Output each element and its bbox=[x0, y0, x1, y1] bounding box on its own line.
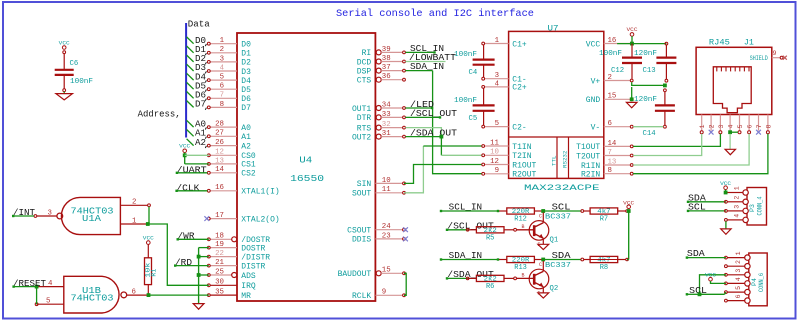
svg-text:14: 14 bbox=[215, 166, 224, 174]
svg-text:3: 3 bbox=[48, 209, 52, 217]
ground symbol P3 bbox=[721, 229, 731, 234]
svg-text:D5: D5 bbox=[241, 86, 251, 95]
wire Q1 collector to SCL node bbox=[542, 213, 544, 223]
svg-text:T1OUT: T1OUT bbox=[576, 143, 600, 152]
node /LOWBATT stub bbox=[405, 53, 456, 63]
svg-text:17: 17 bbox=[215, 212, 224, 220]
svg-text:5: 5 bbox=[735, 286, 742, 290]
wire T1OUT to J1 pin3 bbox=[633, 134, 720, 147]
svg-text:1: 1 bbox=[132, 217, 137, 225]
node /RESET bbox=[13, 279, 47, 289]
J1 pin 7 bbox=[756, 115, 763, 135]
svg-text:7: 7 bbox=[220, 92, 224, 100]
svg-text:/CLK: /CLK bbox=[176, 183, 200, 193]
svg-text:V+: V+ bbox=[591, 77, 601, 86]
svg-text:2: 2 bbox=[608, 74, 612, 82]
VCC supply at R1 bbox=[143, 234, 155, 244]
svg-text:24: 24 bbox=[382, 223, 391, 231]
svg-text:Serial console and I2C interfa: Serial console and I2C interface bbox=[336, 8, 534, 20]
P3 pin 4 bbox=[727, 214, 748, 223]
wire SIN to R1OUT bbox=[404, 165, 482, 184]
wire end dots bbox=[12, 51, 689, 295]
node /CLK bbox=[176, 183, 207, 193]
P3 pin 2 bbox=[727, 196, 748, 205]
svg-text:/DISTR: /DISTR bbox=[241, 253, 270, 262]
svg-text:DCD: DCD bbox=[357, 58, 372, 67]
svg-text:Address,: Address, bbox=[138, 109, 181, 119]
svg-text:P3: P3 bbox=[749, 204, 756, 212]
svg-text:Q1: Q1 bbox=[550, 236, 559, 244]
svg-text:39: 39 bbox=[382, 46, 391, 54]
U4 pin 2 D1 bbox=[207, 46, 251, 58]
U4 pin 22 /DISTR bbox=[207, 250, 270, 262]
J1 pin 5 bbox=[737, 115, 744, 134]
svg-text:2: 2 bbox=[709, 124, 716, 128]
U4 pin 6 D5 bbox=[207, 83, 251, 95]
P4 pin 3 bbox=[725, 269, 751, 278]
U4 pin 7 D6 bbox=[207, 92, 251, 104]
capacitor C5 bbox=[454, 88, 495, 125]
U4 pin 3 D2 bbox=[207, 55, 251, 67]
svg-text:D7: D7 bbox=[241, 104, 251, 113]
resistor R1 10k bbox=[145, 244, 158, 295]
svg-text:V-: V- bbox=[591, 124, 601, 133]
svg-text:30: 30 bbox=[215, 279, 224, 287]
U4 pin 21 DISTR bbox=[207, 259, 265, 271]
U7 pin 12 R1OUT bbox=[482, 158, 537, 170]
U7 pin 14 T1OUT bbox=[576, 140, 633, 152]
svg-text:CONN_4: CONN_4 bbox=[756, 196, 763, 215]
svg-text:3: 3 bbox=[735, 269, 742, 273]
svg-text:D1: D1 bbox=[241, 50, 251, 59]
U4 pin 24 CSOUT bbox=[347, 223, 408, 235]
wire T2OUT to J1 pin1 bbox=[633, 134, 702, 156]
U7 pin 1 C1+ bbox=[482, 37, 527, 49]
svg-text:12: 12 bbox=[490, 158, 499, 166]
VCC supply at P4 pin4 bbox=[705, 271, 726, 283]
U7 pin 3 C1- bbox=[482, 72, 527, 84]
P4 pin 4 bbox=[725, 277, 751, 286]
svg-text:U4: U4 bbox=[299, 156, 312, 166]
svg-text:R2OUT: R2OUT bbox=[512, 171, 536, 180]
U4 pin 31 OUT2 bbox=[352, 130, 405, 142]
svg-text:RI: RI bbox=[362, 49, 372, 58]
node /INT bbox=[13, 208, 36, 218]
node SDA_IN stub bbox=[405, 62, 444, 72]
svg-text:J1: J1 bbox=[744, 39, 754, 48]
VCC supply at P3 pin1 bbox=[720, 180, 732, 194]
svg-text:ADS: ADS bbox=[241, 272, 256, 281]
NAND gate U1B 74HCT03 bbox=[64, 276, 127, 313]
U7 pin 4 C2+ bbox=[482, 80, 527, 92]
svg-text:6: 6 bbox=[608, 120, 612, 128]
node /UART bbox=[177, 165, 208, 175]
svg-text:4: 4 bbox=[220, 64, 225, 72]
U1A pin 3 output bbox=[34, 209, 57, 217]
svg-text:11: 11 bbox=[382, 186, 391, 194]
svg-text:9: 9 bbox=[773, 50, 777, 57]
wire R8 to VCC rail bbox=[627, 259, 629, 261]
node SDA to P3 pin2 bbox=[688, 193, 727, 203]
svg-text:32: 32 bbox=[382, 121, 391, 129]
svg-text:R1OUT: R1OUT bbox=[512, 161, 536, 170]
svg-text:SHIELD: SHIELD bbox=[750, 55, 768, 62]
svg-text:2: 2 bbox=[734, 196, 741, 200]
svg-text:23: 23 bbox=[382, 232, 391, 240]
svg-text:DOSTR: DOSTR bbox=[241, 244, 265, 253]
connector J1 RJ45 body bbox=[696, 39, 772, 115]
U7 pin 10 T2IN bbox=[482, 149, 532, 161]
node D1 bus tap bbox=[187, 45, 207, 55]
svg-text:R1: R1 bbox=[151, 269, 158, 277]
wire VCC to CS0 bbox=[185, 154, 209, 156]
svg-text:D4: D4 bbox=[241, 77, 251, 86]
U4 pin 37 DSP bbox=[357, 64, 406, 76]
svg-text:R6: R6 bbox=[486, 283, 494, 291]
U4 pin 27 A1 bbox=[207, 130, 251, 142]
wire U1B inputs tied bbox=[36, 287, 38, 305]
wire R13 to SDA node bbox=[541, 258, 583, 262]
J1 pin 6 bbox=[747, 115, 754, 134]
svg-text:15: 15 bbox=[382, 267, 391, 275]
ground symbol below J1 bbox=[725, 149, 735, 154]
ground bus for DOSTR/DISTR/ADS bbox=[197, 248, 209, 304]
node D3 bus tap bbox=[187, 63, 207, 73]
U7 pin 9 R2OUT bbox=[482, 167, 537, 179]
svg-text:BC337: BC337 bbox=[545, 262, 571, 270]
svg-text:2: 2 bbox=[220, 46, 224, 54]
svg-text:R7: R7 bbox=[600, 216, 608, 224]
svg-text:4: 4 bbox=[48, 280, 53, 288]
svg-text:1: 1 bbox=[495, 37, 500, 45]
connector P3 CONN_4 body bbox=[747, 188, 767, 226]
svg-text:C12: C12 bbox=[611, 67, 624, 75]
svg-text:13: 13 bbox=[215, 157, 224, 165]
node /LED stub bbox=[405, 100, 434, 110]
svg-text:120nF: 120nF bbox=[634, 50, 657, 58]
U4 pin 13 CS1 bbox=[207, 157, 256, 169]
svg-text:DDIS: DDIS bbox=[352, 236, 371, 245]
svg-text:C4: C4 bbox=[469, 69, 478, 77]
capacitor C14 bbox=[634, 89, 675, 138]
node SDA_IN (lower) bbox=[441, 251, 498, 261]
resistor R7 4k7 bbox=[584, 208, 629, 224]
svg-text:R5: R5 bbox=[486, 234, 494, 242]
svg-text:31: 31 bbox=[382, 130, 391, 138]
U4 pin 4 D3 bbox=[207, 64, 251, 76]
U4 pin 30 IRQ bbox=[207, 279, 256, 291]
svg-text:16: 16 bbox=[215, 184, 224, 192]
svg-text:CS1: CS1 bbox=[241, 161, 256, 170]
svg-text:Q2: Q2 bbox=[550, 285, 559, 293]
U4 pin 34 OUT1 bbox=[352, 101, 405, 113]
svg-text:120nF: 120nF bbox=[634, 96, 657, 104]
resistor R6 2k2 bbox=[466, 275, 516, 291]
svg-text:T2IN: T2IN bbox=[512, 152, 531, 161]
svg-text:100nF: 100nF bbox=[70, 78, 93, 86]
node SCL to P4 pin5 bbox=[687, 286, 726, 296]
svg-text:/UART: /UART bbox=[177, 165, 208, 175]
U4 pin 19 DOSTR bbox=[207, 241, 265, 253]
svg-text:Data: Data bbox=[188, 20, 211, 30]
U4 pin 12 CS0 bbox=[207, 149, 256, 161]
svg-text:12: 12 bbox=[215, 149, 224, 157]
U4 pin 38 DCD bbox=[357, 55, 406, 67]
U4 pin 1 D0 bbox=[207, 37, 251, 49]
node SCL to P3 pin3 bbox=[688, 203, 727, 213]
svg-text:16550: 16550 bbox=[290, 173, 324, 184]
svg-text:18: 18 bbox=[215, 233, 224, 241]
node D2 bus tap bbox=[187, 54, 207, 64]
U7 pin 2 V+ bbox=[591, 74, 634, 86]
U1B pin 6 output bbox=[127, 289, 151, 298]
svg-text:1: 1 bbox=[734, 186, 741, 190]
connector P4 CONN_6 body bbox=[749, 253, 767, 306]
svg-text:SCL: SCL bbox=[552, 203, 571, 213]
VCC supply top right bbox=[627, 26, 639, 43]
capacitor C4 bbox=[454, 45, 495, 77]
wire R2IN to J1 pin8 bbox=[633, 134, 768, 174]
svg-text:U7: U7 bbox=[548, 25, 559, 34]
svg-text:3: 3 bbox=[718, 124, 725, 128]
svg-text:D3: D3 bbox=[241, 68, 251, 77]
svg-text:4: 4 bbox=[734, 214, 741, 218]
svg-text:CTS: CTS bbox=[357, 77, 372, 86]
svg-text:A2: A2 bbox=[241, 142, 251, 151]
U4 pin 23 DDIS bbox=[352, 232, 408, 244]
wire MR net U1B output to U4 pin 35 bbox=[149, 294, 209, 296]
wire SDA_IN to R2OUT bbox=[433, 71, 482, 174]
wire BAUDOUT to RCLK bbox=[404, 273, 406, 295]
U4 pin 15 BAUDOUT bbox=[338, 267, 406, 279]
svg-text:DTR: DTR bbox=[357, 114, 372, 123]
svg-text:3: 3 bbox=[734, 205, 741, 209]
U4 pin 18 /DOSTR bbox=[207, 233, 270, 245]
svg-text:6: 6 bbox=[735, 294, 742, 298]
svg-text:4k7: 4k7 bbox=[597, 208, 611, 215]
resistor R12 220R bbox=[497, 208, 543, 224]
svg-text:3: 3 bbox=[220, 55, 224, 63]
U1B pin 5 input bbox=[35, 298, 64, 306]
node A0 bus tap bbox=[187, 119, 207, 129]
VCC supply symbol at C6 bbox=[59, 39, 71, 53]
svg-text:/RESET: /RESET bbox=[13, 279, 47, 289]
svg-text:RJ45: RJ45 bbox=[709, 39, 730, 48]
svg-text:U1A: U1A bbox=[82, 214, 102, 224]
svg-text:A2: A2 bbox=[195, 138, 206, 148]
wire Q1 emitter to ground bbox=[542, 238, 544, 244]
wire /SDA_OUT to T2IN bbox=[440, 137, 442, 156]
IC U7 MAX232ACPE body bbox=[509, 25, 604, 193]
U4 pin 32 RTS bbox=[357, 121, 406, 133]
U7 pin 5 C2- bbox=[482, 120, 527, 132]
svg-text:2: 2 bbox=[132, 199, 136, 207]
U4 pin 8 D7 bbox=[207, 101, 251, 113]
svg-text:10: 10 bbox=[382, 177, 391, 185]
no-connect on U4 pin 17 bbox=[204, 216, 209, 221]
svg-text:C2-: C2- bbox=[512, 123, 526, 132]
svg-text:27: 27 bbox=[215, 130, 224, 138]
svg-text:A0: A0 bbox=[241, 124, 251, 133]
svg-text:R12: R12 bbox=[514, 216, 527, 224]
svg-text:SIN: SIN bbox=[357, 180, 372, 189]
svg-text:21: 21 bbox=[215, 259, 224, 267]
capacitor C13 bbox=[634, 45, 676, 82]
svg-text:/RD: /RD bbox=[175, 258, 192, 268]
svg-text:SOUT: SOUT bbox=[352, 190, 371, 199]
J1 pin 9 SHIELD bbox=[750, 50, 787, 62]
svg-text:2k2: 2k2 bbox=[484, 276, 498, 283]
svg-text:DISTR: DISTR bbox=[241, 262, 265, 271]
svg-text:R1IN: R1IN bbox=[581, 162, 600, 171]
U4 pin 17 XTAL2(O) bbox=[207, 212, 279, 224]
capacitor C12 bbox=[599, 44, 642, 79]
RJ45 jack symbol bbox=[713, 67, 751, 113]
node SCL_IN stub bbox=[405, 44, 444, 54]
P4 pin 2 bbox=[725, 260, 751, 269]
U4 pin 26 A2 bbox=[207, 139, 251, 151]
svg-text:C2+: C2+ bbox=[512, 84, 527, 93]
P4 pin 5 bbox=[725, 286, 751, 295]
svg-text:MAX232ACPE: MAX232ACPE bbox=[524, 183, 600, 193]
svg-text:C: C bbox=[539, 262, 542, 268]
IC U4 16550 body bbox=[237, 33, 375, 301]
J1 pin 1 bbox=[699, 115, 706, 134]
svg-text:10: 10 bbox=[490, 149, 499, 157]
svg-text:C6: C6 bbox=[70, 60, 79, 68]
svg-text:CS2: CS2 bbox=[241, 170, 256, 179]
P3 pin 3 bbox=[727, 205, 748, 214]
svg-text:VCC: VCC bbox=[586, 40, 601, 49]
svg-text:D6: D6 bbox=[241, 95, 251, 104]
svg-text:220R: 220R bbox=[512, 257, 530, 264]
U4 pin 9 RCLK bbox=[352, 289, 405, 301]
J1 pin 4 bbox=[728, 115, 735, 135]
svg-text:C: C bbox=[539, 213, 542, 219]
svg-text:D2: D2 bbox=[241, 59, 251, 68]
wire R12 to SCL node bbox=[541, 209, 583, 213]
svg-text:2k2: 2k2 bbox=[484, 227, 498, 234]
svg-text:9: 9 bbox=[382, 289, 386, 297]
U4 pin 5 D4 bbox=[207, 74, 251, 86]
svg-text:4: 4 bbox=[495, 80, 500, 88]
svg-text:2: 2 bbox=[735, 260, 742, 264]
svg-text:25: 25 bbox=[215, 268, 224, 276]
svg-text:7: 7 bbox=[608, 149, 612, 157]
U7 pin 16 VCC bbox=[586, 37, 633, 49]
svg-text:BAUDOUT: BAUDOUT bbox=[338, 270, 372, 279]
NAND gate U1A 74HCT03 (mirrored) bbox=[57, 197, 121, 234]
svg-text:35: 35 bbox=[215, 289, 224, 297]
U4 pin 25 ADS bbox=[207, 268, 256, 280]
svg-text:XTAL2(O): XTAL2(O) bbox=[241, 215, 279, 224]
svg-text:OUT2: OUT2 bbox=[352, 133, 371, 142]
U4 pin 39 RI bbox=[362, 46, 406, 58]
svg-text:1: 1 bbox=[699, 124, 706, 128]
svg-text:100nF: 100nF bbox=[454, 51, 477, 59]
svg-text:4k7: 4k7 bbox=[597, 257, 611, 264]
wire V+ to C13/C14 junction bbox=[632, 82, 667, 87]
ground symbol below U1B area bbox=[193, 304, 204, 310]
U1A pin 2 input bbox=[120, 199, 150, 207]
node D7 bus tap bbox=[187, 100, 207, 110]
svg-text:C14: C14 bbox=[643, 130, 657, 138]
resistor R13 220R bbox=[497, 256, 543, 272]
svg-text:RCLK: RCLK bbox=[352, 292, 371, 301]
svg-text:D0: D0 bbox=[241, 41, 251, 50]
wire Q2 collector to SDA node bbox=[542, 261, 544, 271]
U4 pin 36 CTS bbox=[357, 73, 406, 85]
VCC supply for CS0/CS1 bbox=[179, 143, 191, 164]
svg-text:100nF: 100nF bbox=[599, 50, 622, 58]
wire Q2 emitter to ground bbox=[542, 287, 544, 293]
U1B pin 4 input bbox=[35, 280, 64, 289]
node SDA to P4 pin1 bbox=[687, 249, 726, 259]
wire V- to C14 bbox=[633, 126, 663, 128]
wire J1 pin4/pin5 to ground bbox=[730, 132, 738, 149]
wire R1IN to J1 pin6 bbox=[633, 134, 749, 165]
node /SDA_OUT stub bbox=[405, 128, 457, 138]
svg-text:T2OUT: T2OUT bbox=[576, 152, 600, 161]
capacitor C6 bbox=[55, 54, 93, 92]
svg-text:38: 38 bbox=[382, 55, 391, 63]
node /SCL_OUT stub bbox=[405, 109, 457, 119]
wire RTS to T2IN vertical bbox=[405, 128, 441, 137]
svg-text:5: 5 bbox=[220, 74, 224, 82]
U4 pin 11 SOUT bbox=[352, 186, 405, 198]
svg-text:C1+: C1+ bbox=[512, 40, 527, 49]
bus Data/Address bbox=[185, 23, 187, 138]
svg-text:9: 9 bbox=[495, 167, 499, 175]
node /SDA_OUT (lower) bbox=[447, 270, 494, 280]
node D5 bus tap bbox=[187, 81, 207, 91]
svg-text:C13: C13 bbox=[643, 67, 656, 75]
node A2 bus tap bbox=[187, 138, 207, 148]
svg-text:RS232: RS232 bbox=[562, 150, 569, 168]
svg-text:3: 3 bbox=[495, 72, 499, 80]
svg-text:22: 22 bbox=[215, 250, 224, 258]
P4 pin 6 bbox=[725, 294, 751, 303]
svg-text:XTAL1(I): XTAL1(I) bbox=[241, 188, 279, 197]
ground symbol near U7 bbox=[626, 102, 637, 107]
node D0 bus tap bbox=[187, 36, 207, 46]
U4 pin 16 XTAL1(I) bbox=[207, 184, 279, 196]
resistor R8 4k7 bbox=[584, 256, 629, 272]
svg-text:CONN_6: CONN_6 bbox=[758, 273, 765, 292]
wire SOUT to T1IN bbox=[404, 146, 423, 193]
J1 pin 2 bbox=[709, 115, 716, 135]
svg-text:5: 5 bbox=[46, 298, 50, 306]
wire P3 pin4 to ground bbox=[725, 219, 728, 229]
svg-text:16: 16 bbox=[608, 37, 617, 45]
svg-text:4: 4 bbox=[728, 124, 735, 128]
svg-text:6: 6 bbox=[132, 289, 136, 297]
wire U1A output net to IRQ bbox=[148, 224, 209, 285]
node D4 bus tap bbox=[187, 72, 207, 82]
U7 pin 15 GND bbox=[586, 93, 633, 105]
U7 pin 6 V- bbox=[591, 120, 634, 132]
svg-text:RTS: RTS bbox=[357, 124, 372, 133]
svg-text:14: 14 bbox=[608, 140, 617, 148]
svg-text:C5: C5 bbox=[469, 115, 478, 123]
svg-text:13: 13 bbox=[608, 158, 617, 166]
U1A pin 1 input bbox=[120, 217, 149, 226]
J1 pin 8 bbox=[765, 115, 772, 134]
svg-text:BC337: BC337 bbox=[545, 213, 571, 221]
wire U1A inputs tied bbox=[148, 207, 150, 224]
U4 pin 35 MR bbox=[207, 289, 251, 301]
svg-text:4: 4 bbox=[735, 277, 742, 281]
